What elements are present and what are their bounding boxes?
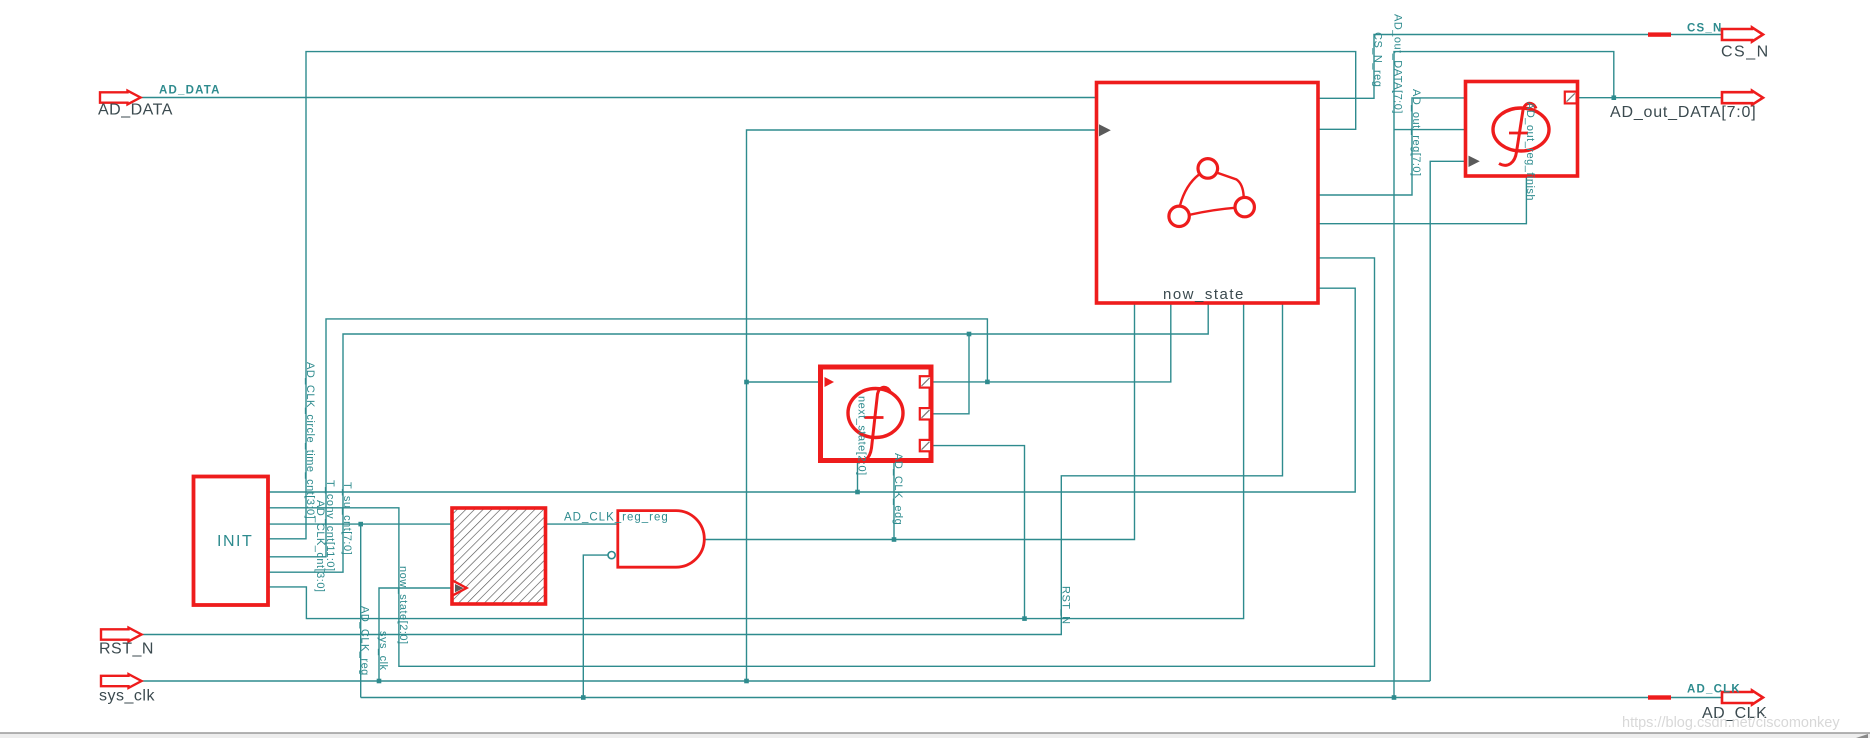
junction next_state pin1 dot bbox=[985, 380, 990, 385]
svg-text:AD_CLK: AD_CLK bbox=[1687, 684, 1741, 696]
hatched mux box bbox=[452, 508, 546, 604]
wire next_state pin1 to now_state bottom pin2 bbox=[932, 303, 1171, 382]
now_state clock triangle bbox=[1099, 124, 1111, 136]
port CS_N output arrow bbox=[1722, 27, 1763, 41]
wire next_state[2:0] bottom stub bbox=[857, 461, 859, 493]
svg-text:sys_clk: sys_clk bbox=[377, 631, 389, 671]
wire next_state pin3 down to y618.6 junction bbox=[932, 446, 1025, 619]
wire RST_N from port up to now_state bottom pin5 bbox=[142, 303, 1283, 635]
wire now_state[2:0]: INIT pin2 down and across to now_state right pin bbox=[268, 258, 1375, 666]
junction y334 dot bbox=[967, 332, 972, 337]
mux U_next_state box bbox=[821, 367, 932, 461]
svg-text:AD_out_reg_finish: AD_out_reg_finish bbox=[1524, 102, 1536, 201]
wire sys_clk stub to next_state clock bbox=[747, 381, 821, 383]
svg-text:AD_CLK_reg: AD_CLK_reg bbox=[359, 606, 371, 676]
wire INIT pin7 down to y618.6 run to now_state bottom pin4 bbox=[268, 303, 1244, 619]
svg-text:now_state[2:0]: now_state[2:0] bbox=[397, 566, 409, 645]
svg-text:AD_out_DATA[7:0]: AD_out_DATA[7:0] bbox=[1610, 104, 1757, 121]
fsm U_now_state box bbox=[1097, 83, 1319, 304]
wire sys_clk riser to hatched box clock bbox=[379, 588, 452, 681]
AD_out_reg function icon bbox=[1493, 108, 1549, 151]
svg-text:https://blog.csdn.net/ciscomon: https://blog.csdn.net/ciscomonkey bbox=[1622, 715, 1840, 731]
junction sys_clk center riser dot bbox=[744, 679, 749, 684]
port AD_DATA input arrow bbox=[100, 91, 141, 105]
junction next_state[2:0] dot bbox=[855, 490, 860, 495]
AD_out_reg output pin square bbox=[1565, 92, 1577, 104]
scrollbar bbox=[0, 733, 1870, 738]
junction AD_out_DATA dot bbox=[1612, 95, 1617, 100]
junction AD_CLK x1394 dot bbox=[1392, 695, 1397, 700]
wire sys_clk main run bbox=[142, 680, 1430, 682]
svg-text:AD_DATA: AD_DATA bbox=[159, 85, 221, 97]
and-gate AD_CLK_reg_reg bbox=[618, 511, 705, 568]
wire AD_CLK_edg bottom stub from next_state bbox=[893, 461, 895, 540]
wire next_state pin2 riser to y334 junction bbox=[932, 334, 970, 414]
svg-text:next_state[2:0]: next_state[2:0] bbox=[856, 396, 868, 476]
junction sys_clk next_state clock dot bbox=[744, 380, 749, 385]
scrollbar corner grip bbox=[1856, 734, 1868, 738]
wire next_state to now_state data: long y492 run bbox=[268, 288, 1355, 492]
wire AD_CLK riser to AND gate bubble input bbox=[583, 555, 608, 697]
svg-text:T_su_cnt[7:0]: T_su_cnt[7:0] bbox=[341, 482, 353, 555]
svg-text:now_state: now_state bbox=[1163, 286, 1245, 303]
INIT constant box bbox=[194, 477, 269, 606]
next_state output pin square 1 bbox=[920, 376, 931, 387]
svg-text:CS_N: CS_N bbox=[1721, 44, 1770, 61]
next_state function icon bbox=[848, 389, 903, 438]
svg-text:AD_out_DATA[7:0]: AD_out_DATA[7:0] bbox=[1392, 14, 1404, 114]
svg-text:RST_N: RST_N bbox=[1059, 586, 1071, 625]
wire finish: AD_out_reg bottom to now_state right input bbox=[1318, 176, 1526, 224]
svg-text:T_conv_cnt[11:0]: T_conv_cnt[11:0] bbox=[324, 480, 336, 572]
next_state output pin square 3 bbox=[920, 440, 931, 451]
wire AD_out_reg left pin2 bbox=[1394, 129, 1466, 131]
port AD_CLK output arrow bbox=[1722, 690, 1763, 704]
wire hatched box to AND gate input bbox=[546, 523, 618, 525]
wire INIT pin5 riser to y319 run down to next_state pin1 junction bbox=[268, 319, 987, 557]
junction y618 dot bbox=[1022, 616, 1027, 621]
port sys_clk input arrow bbox=[101, 674, 142, 688]
svg-text:RST_N: RST_N bbox=[99, 641, 154, 658]
wire now_state right pin to AD_out_reg pin1 bbox=[1318, 98, 1466, 195]
svg-text:AD_out_reg[7:0]: AD_out_reg[7:0] bbox=[1410, 89, 1422, 177]
wire AD_CLK main run to port bbox=[361, 697, 1723, 699]
svg-text:AD_DATA: AD_DATA bbox=[98, 102, 173, 119]
junction AD_CLK_edg dot bbox=[892, 537, 897, 542]
register U_AD_out_reg box bbox=[1466, 82, 1578, 177]
svg-text:CS_N_reg: CS_N_reg bbox=[1372, 32, 1384, 87]
port RST_N input arrow bbox=[101, 628, 142, 642]
and-gate inverter bubble bbox=[608, 552, 615, 559]
wire AND output to now_state bottom pin1 bbox=[704, 303, 1134, 540]
wire sys_clk center riser to now_state clock bbox=[747, 130, 1097, 681]
AD_out_reg clock triangle bbox=[1469, 156, 1480, 167]
svg-text:AD_CLK_reg_reg: AD_CLK_reg_reg bbox=[564, 512, 669, 524]
hatched box clock marker bbox=[453, 581, 467, 596]
wire AD_CLK riser to INIT pin3 junction bbox=[360, 524, 362, 697]
wire INIT pin3 into hatched box bbox=[268, 523, 452, 525]
wire INIT pin6 riser to y334 run to now_state bottom pin3 bbox=[268, 303, 1208, 572]
svg-text:AD_CLK_circle_time_cnt[3:0]: AD_CLK_circle_time_cnt[3:0] bbox=[304, 362, 316, 519]
wire AD_out_DATA output: AD_out_reg to port bbox=[1578, 97, 1724, 99]
svg-text:INIT: INIT bbox=[217, 533, 253, 550]
next_state output pin square 2 bbox=[920, 408, 931, 419]
wire CS_N net: now_state output to CS_N port bbox=[1318, 35, 1723, 99]
red dash on AD_CLK wire bbox=[1648, 695, 1671, 699]
svg-text:CS_N: CS_N bbox=[1687, 23, 1722, 35]
svg-text:sys_clk: sys_clk bbox=[99, 688, 155, 705]
junction AD_CLK AND riser dot bbox=[581, 695, 586, 700]
wire AD_out_reg clock from sys_clk riser bbox=[1430, 161, 1465, 681]
junction sys_clk hatched riser dot bbox=[377, 679, 382, 684]
wire AD_DATA input to now_state bbox=[140, 97, 1097, 99]
now_state fsm icon bbox=[1169, 159, 1255, 227]
red dash on CS_N wire bbox=[1648, 32, 1671, 36]
svg-text:AD_CLK_edg: AD_CLK_edg bbox=[892, 453, 904, 525]
junction AD_CLK INIT pin3 dot bbox=[358, 522, 363, 527]
wire x1394 net long vertical with top jog to AD_out_DATA junction bbox=[1394, 52, 1614, 698]
wire INIT pin4 up and across top to now_state right pin bbox=[268, 52, 1356, 539]
port AD_out_DATA output arrow bbox=[1722, 91, 1763, 105]
next_state clock arrow bbox=[825, 377, 835, 387]
